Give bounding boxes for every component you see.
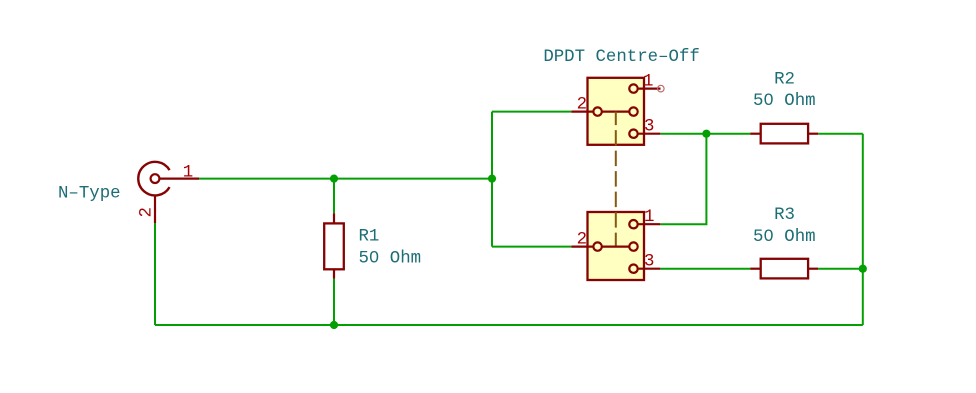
connector J1 centre contact circle bbox=[151, 174, 160, 183]
SW1a pin 3 line bbox=[638, 133, 661, 135]
R1 pin top bbox=[333, 213, 335, 223]
svg-text:DPDT Centre–Off: DPDT Centre–Off bbox=[543, 48, 700, 67]
junction at R1 bottom bbox=[330, 321, 338, 329]
junction at R1 top bbox=[330, 175, 338, 183]
SW1b pin 2 line bbox=[571, 246, 593, 248]
junction at R3 right bbox=[859, 265, 867, 273]
unconnected pin marker on SW1a pin 1 bbox=[658, 85, 665, 92]
resistor R3 body bbox=[761, 259, 808, 279]
svg-text:R2: R2 bbox=[774, 71, 795, 90]
SW1b common contact circle bbox=[593, 242, 601, 250]
svg-text:R1: R1 bbox=[359, 227, 380, 246]
SW1a pin 1 line bbox=[638, 87, 661, 89]
R3 pin right bbox=[808, 268, 818, 270]
resistor R2 body bbox=[761, 124, 808, 144]
svg-text:N–Type: N–Type bbox=[58, 185, 121, 204]
resistor R1 body bbox=[324, 223, 344, 269]
wire SW1a pin 3 to R2 left bbox=[660, 133, 750, 135]
SW1a throw contact circle pin 1 bbox=[629, 84, 637, 92]
svg-text:50 Ohm: 50 Ohm bbox=[753, 92, 816, 111]
SW1b pin 1 line bbox=[638, 223, 661, 225]
switch SW1 pole B body bbox=[588, 212, 645, 280]
wire SW1b pin 1 up to R2 row bbox=[660, 134, 706, 225]
wire R1 top bbox=[333, 179, 335, 214]
wire vertical feed split to both switch poles bbox=[491, 112, 493, 247]
svg-text:2: 2 bbox=[138, 207, 157, 217]
wire right rail vertical bbox=[862, 134, 864, 325]
R3 pin left bbox=[750, 268, 761, 270]
wire to SW1b pin 2 bbox=[492, 246, 571, 248]
svg-text:R3: R3 bbox=[774, 206, 795, 225]
SW1b throw contact circle pin 3 bbox=[629, 265, 637, 273]
svg-text:3: 3 bbox=[644, 118, 654, 137]
SW1b throw contact circle pin 1 bbox=[629, 220, 637, 228]
switch SW1 pole A body bbox=[588, 78, 645, 145]
pin 2 of J1 bbox=[154, 196, 156, 223]
pin 1 of J1 bbox=[160, 178, 199, 180]
SW1b lever bbox=[602, 246, 630, 248]
wire J1 pin 2 down left side bbox=[154, 223, 156, 325]
wire R3 right to right rail bbox=[818, 268, 863, 270]
mechanical link dashed line between poles bbox=[615, 112, 617, 247]
svg-text:1: 1 bbox=[183, 163, 193, 182]
SW1a pin 2 line bbox=[571, 110, 593, 112]
connector J1 N-Type outer shield arc bbox=[138, 162, 169, 196]
svg-text:50 Ohm: 50 Ohm bbox=[753, 228, 816, 247]
svg-text:2: 2 bbox=[577, 96, 587, 115]
SW1b centre-off contact circle bbox=[629, 242, 637, 250]
wire bottom return bbox=[155, 324, 863, 326]
SW1a lever bbox=[602, 110, 630, 112]
junction at feed split bbox=[488, 175, 496, 183]
R2 pin right bbox=[808, 133, 818, 135]
wire to SW1a pin 2 bbox=[492, 111, 571, 113]
R2 pin left bbox=[750, 133, 761, 135]
svg-text:2: 2 bbox=[577, 231, 587, 250]
R1 pin bottom bbox=[333, 269, 335, 278]
SW1a common contact circle bbox=[593, 107, 601, 115]
junction at R2 left bbox=[702, 130, 710, 138]
wire from J1 pin 1 to feed junction bbox=[199, 178, 492, 180]
wire SW1b pin 3 to R3 left bbox=[660, 268, 750, 270]
wire R1 bottom bbox=[333, 279, 335, 325]
svg-text:50 Ohm: 50 Ohm bbox=[359, 250, 422, 269]
svg-text:3: 3 bbox=[644, 253, 654, 272]
svg-text:1: 1 bbox=[644, 208, 654, 227]
wire R2 right to right rail bbox=[818, 133, 863, 135]
SW1b pin 3 line bbox=[638, 268, 661, 270]
SW1a throw contact circle pin 3 bbox=[629, 130, 637, 138]
svg-text:1: 1 bbox=[643, 73, 653, 92]
SW1a centre-off contact circle bbox=[629, 107, 637, 115]
